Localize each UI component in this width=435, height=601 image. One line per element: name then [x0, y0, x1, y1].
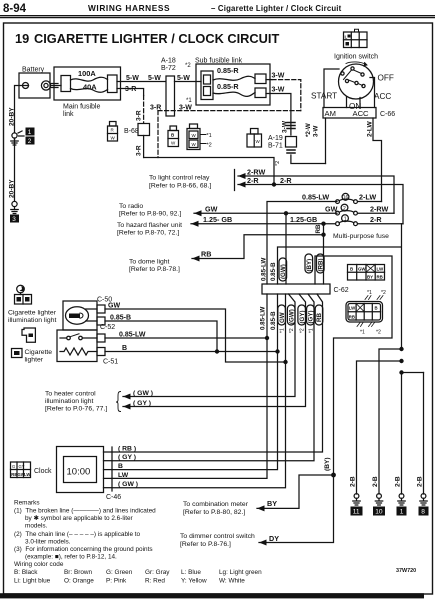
svg-text:0.85-LW: 0.85-LW	[261, 257, 268, 281]
svg-text:1: 1	[400, 509, 404, 516]
wire ON contact leads	[347, 97, 361, 108]
svg-text:C-66: C-66	[380, 111, 395, 118]
svg-text:illumination light: illumination light	[8, 317, 56, 324]
clock box	[57, 447, 104, 493]
node multi-purpose fuse	[321, 233, 325, 237]
wire GW illumination to GW net	[86, 309, 286, 362]
svg-text:RB: RB	[316, 313, 323, 322]
ground point 1/2	[11, 128, 35, 146]
svg-text:B: B	[118, 463, 123, 470]
svg-text:3-R: 3-R	[136, 145, 143, 156]
svg-text:1.25-GB: 1.25-GB	[290, 215, 317, 224]
svg-text:3.0-liter models.: 3.0-liter models.	[25, 539, 71, 546]
lighter terminals	[97, 334, 105, 342]
wire B-68 down to bus	[143, 136, 145, 158]
svg-text:RB: RB	[349, 314, 355, 319]
svg-text:B: B	[375, 306, 378, 311]
ground point 10	[373, 494, 385, 516]
wire 0.85-LW below C-62	[112, 294, 267, 478]
svg-text:(GY): (GY)	[299, 310, 306, 323]
svg-text:Br: Brown: Br: Brown	[64, 569, 93, 576]
svg-text:2-B: 2-B	[417, 476, 424, 487]
svg-text:DY: DY	[269, 534, 279, 543]
svg-text:2-RW: 2-RW	[370, 205, 388, 214]
wire 1.25-GB hazard row (fuse 1)	[191, 215, 336, 227]
wire (RB) below C-62 (to clock)	[112, 294, 323, 452]
wire 3-W lower output to A-19	[266, 94, 291, 136]
connector icon (2-cell, middle)	[168, 126, 179, 147]
wire DY to dimmer control switch	[259, 475, 334, 546]
svg-text:Lg: Light green: Lg: Light green	[219, 569, 262, 576]
svg-text:Multi-purpose fuse: Multi-purpose fuse	[333, 233, 389, 240]
bracket	[116, 392, 121, 412]
svg-text:(GW): (GW)	[280, 264, 287, 279]
svg-text:(1) The broken line (————) an: (1) The broken line (————) and lines ind…	[14, 508, 156, 515]
bottom black bar	[0, 593, 424, 598]
svg-text:*2: *2	[376, 330, 381, 336]
svg-text:16: 16	[343, 195, 349, 201]
cigarette lighter illumination light icon	[15, 285, 32, 304]
svg-text:37W720: 37W720	[396, 568, 416, 574]
junction 3-R riser / 2-R line	[272, 182, 276, 186]
svg-text:3: 3	[12, 216, 16, 223]
junction (BY)	[331, 473, 336, 478]
wire B clock row	[104, 469, 113, 471]
svg-text:2: 2	[28, 138, 32, 145]
svg-text:GW: GW	[108, 303, 120, 310]
svg-text:RB: RB	[11, 472, 17, 477]
chain-line marks on A-19 feed	[287, 123, 295, 129]
svg-text:C-52: C-52	[100, 324, 115, 331]
svg-text:L: Blue: L: Blue	[181, 569, 201, 576]
wire 2-R fuse 1 out	[358, 223, 403, 225]
cigarette lighter box	[57, 330, 97, 362]
svg-text:8: 8	[421, 509, 425, 516]
ground point 11	[351, 494, 363, 516]
wire RB tap down to multi-purpose fuse node	[323, 224, 325, 235]
svg-text:lighter: lighter	[25, 357, 44, 364]
ground point 8	[419, 494, 429, 516]
svg-text:START: START	[311, 92, 337, 101]
pin table upper	[348, 265, 385, 281]
fusible link 100A wavy element	[71, 77, 108, 81]
wire 3-R bus to fuse riser	[144, 158, 274, 185]
svg-text:illumination light: illumination light	[45, 398, 93, 405]
ground bus branch to trunk	[402, 372, 424, 374]
svg-text:To hazard flasher unit: To hazard flasher unit	[117, 222, 182, 229]
svg-text:To dome light: To dome light	[129, 259, 170, 266]
wire (GY) *2 below C-62 (to heater)	[123, 294, 306, 407]
wire 0.85-LW lighter feed	[105, 337, 267, 339]
pin table lower (connector face)	[346, 290, 386, 336]
svg-text:RB: RB	[377, 274, 383, 279]
svg-text:(BY): (BY)	[324, 457, 331, 471]
svg-text:0.85-LW: 0.85-LW	[119, 332, 146, 339]
svg-text:5-W: 5-W	[148, 75, 161, 82]
wire dashed branch down to 3-R bus	[157, 111, 159, 158]
label to hazard flasher unit	[117, 222, 182, 237]
wire (RB) clock row	[104, 451, 113, 453]
svg-text:LW: LW	[377, 267, 384, 272]
svg-text:3-R: 3-R	[136, 110, 143, 121]
svg-text:(BY): (BY)	[306, 259, 313, 272]
svg-text:10: 10	[375, 509, 383, 516]
svg-text:[Refer to P.8-78.]: [Refer to P.8-78.]	[129, 266, 180, 273]
svg-text:*2: *2	[275, 161, 281, 166]
svg-text:GY: GY	[19, 464, 25, 469]
svg-text:3-W: 3-W	[272, 73, 285, 80]
svg-text:1.25- GB: 1.25- GB	[203, 215, 232, 224]
svg-text:To radio: To radio	[119, 203, 143, 210]
wire to light control relay 2-RW (from fuse 2)	[238, 168, 394, 214]
svg-text:C-62: C-62	[334, 287, 349, 294]
clock connector icon	[11, 462, 31, 478]
svg-text:( GW ): ( GW )	[118, 481, 138, 488]
wire ground1 to ground3	[14, 138, 16, 201]
wire battery negative to ground	[15, 86, 23, 133]
wire to light control relay 2-R (from fuse 1 via 3-R riser)	[238, 176, 403, 224]
svg-text:link: link	[63, 111, 74, 118]
svg-text:3-W: 3-W	[313, 125, 320, 137]
PAGE HEADER	[3, 3, 342, 15]
svg-text:GW: GW	[205, 205, 218, 214]
svg-text:A-18: A-18	[161, 58, 176, 65]
svg-text:( GY ): ( GY )	[133, 400, 151, 407]
svg-text:*2: *2	[381, 290, 386, 296]
junction GW / C-62 branch	[284, 211, 288, 215]
svg-text:BY: BY	[367, 274, 373, 279]
wire (GW) to heater control illumination	[123, 390, 153, 400]
svg-text:Wiring color code: Wiring color code	[14, 561, 64, 568]
svg-text:O: Orange: O: Orange	[64, 578, 94, 585]
wire 5-W A-18 to sub fusible link	[175, 81, 202, 83]
svg-text:[Refer to P.8-70, 72.]: [Refer to P.8-70, 72.]	[117, 230, 179, 237]
wire 0.85-B ground feed from C-62 to right trunk	[278, 224, 402, 349]
svg-text:3-W: 3-W	[272, 87, 285, 94]
svg-text:P: Pink: P: Pink	[106, 578, 127, 585]
svg-text:– Cigarette Lighter / Clock Ci: – Cigarette Lighter / Clock Circuit	[211, 4, 342, 13]
wire RB to dome light	[192, 235, 324, 262]
svg-text:*2: *2	[300, 328, 306, 333]
ignition switch body	[339, 62, 374, 99]
svg-text:[Refer to P.8-66, 68.]: [Refer to P.8-66, 68.]	[149, 183, 211, 190]
svg-text:( GY ): ( GY )	[118, 454, 136, 461]
svg-text:11: 11	[353, 509, 360, 516]
label to light control relay	[149, 175, 211, 190]
label to dome light	[129, 259, 180, 274]
svg-text:WIRING HARNESS: WIRING HARNESS	[88, 3, 170, 13]
fusible link 40A wavy element	[71, 89, 108, 93]
svg-text:3-R: 3-R	[150, 104, 161, 111]
sub fusible element lower	[213, 92, 255, 96]
svg-text:Cigarette lighter: Cigarette lighter	[8, 310, 57, 317]
wire (GW) *2 below C-62 (to heater)	[123, 294, 295, 397]
wire battery positive to main fusible link	[51, 85, 61, 87]
wire GW radio row (fuse 2)	[194, 205, 338, 217]
label to heater control illumination light	[45, 391, 107, 413]
svg-text:*2: *2	[185, 63, 191, 69]
svg-text:Y: Yellow: Y: Yellow	[181, 578, 207, 585]
wire A-19 down and right to ignition AM / ground trunk	[291, 155, 326, 164]
junction lighter ground / 0.85-B	[275, 349, 279, 353]
svg-text:5-W: 5-W	[126, 75, 139, 82]
svg-text:LW: LW	[118, 472, 129, 479]
svg-text:(GY): (GY)	[308, 310, 315, 323]
wire 3-W upper output (dashed 2.6L path)	[266, 79, 272, 81]
wire 2-LW fuse 16 to ACC riser	[358, 201, 382, 203]
svg-text:*1: *1	[280, 328, 286, 333]
svg-text:A-19: A-19	[268, 135, 283, 142]
svg-text:*2-W: *2-W	[305, 123, 312, 137]
connector icon (2-cell, left)	[108, 122, 118, 142]
svg-text:Li: Light blue: Li: Light blue	[14, 578, 51, 585]
svg-text:2-LW: 2-LW	[367, 120, 374, 137]
svg-text:G: Green: G: Green	[106, 569, 133, 576]
bracket	[234, 170, 236, 191]
svg-text:B: B	[350, 267, 353, 272]
svg-text:Sub fusible link: Sub fusible link	[195, 58, 243, 65]
svg-text:LW: LW	[349, 306, 356, 311]
ground bus branch to ground 10	[379, 349, 402, 494]
wire LW clock row	[104, 477, 113, 479]
svg-text:8-94: 8-94	[3, 3, 27, 15]
svg-text:(3) For information concernin: (3) For information concerning the groun…	[14, 546, 153, 553]
connector icon (near A-19)	[247, 129, 262, 148]
wire (GY) clock row	[104, 460, 113, 462]
wire 0.85-B below C-62	[112, 294, 278, 470]
junction 1.25-GB / RB tap	[321, 222, 325, 226]
svg-text:L: L	[345, 35, 348, 40]
ground point 3	[10, 201, 19, 223]
svg-text:10:00: 10:00	[67, 467, 91, 478]
svg-text:GW: GW	[358, 267, 366, 272]
svg-text:LW: LW	[24, 472, 30, 477]
svg-text:2-R: 2-R	[247, 176, 259, 185]
svg-text:B-68: B-68	[124, 128, 139, 135]
header rule	[0, 15, 435, 17]
svg-text:( GW ): ( GW )	[133, 390, 153, 397]
svg-text:3-W: 3-W	[179, 104, 192, 111]
ground point 1	[397, 494, 407, 516]
svg-text:C-51: C-51	[103, 359, 118, 366]
svg-text:19: 19	[15, 31, 29, 46]
svg-text:0.85-B: 0.85-B	[270, 262, 277, 281]
svg-text:C-46: C-46	[106, 494, 121, 501]
wire B lighter ground	[105, 351, 278, 353]
svg-text:100A: 100A	[78, 69, 96, 78]
wire switch to ACC terminal	[370, 78, 375, 108]
svg-text:(GW): (GW)	[288, 309, 295, 324]
lighter heating element resistor	[60, 348, 97, 355]
fuse 1	[336, 215, 358, 226]
svg-text:ACC: ACC	[374, 92, 391, 101]
svg-text:Battery: Battery	[22, 67, 45, 74]
svg-text:R: Red: R: Red	[145, 578, 165, 585]
svg-text:0.85-R: 0.85-R	[217, 66, 239, 75]
svg-text:[Refer to P.0-76, 77.]: [Refer to P.0-76, 77.]	[45, 406, 107, 413]
svg-text:*1: *1	[186, 98, 192, 104]
wire GW branch to C-62	[285, 213, 287, 284]
wire 2-RW fuse 2 out	[358, 212, 394, 214]
svg-text:Clock: Clock	[34, 468, 52, 475]
wire GW *1 below C-62	[112, 294, 286, 488]
sub fusible element upper	[213, 76, 255, 80]
svg-text:0.85-LW: 0.85-LW	[302, 193, 329, 202]
diagram title	[15, 31, 279, 46]
wire 0.85-B trunk to ground 1	[401, 373, 403, 495]
svg-text:0.85-B: 0.85-B	[270, 311, 277, 330]
svg-text:Remarks: Remarks	[14, 500, 40, 507]
wire 0.85-B illumination ground	[86, 321, 217, 352]
label to combination meter	[183, 501, 249, 516]
svg-text:GW: GW	[279, 312, 286, 323]
svg-text:by ✱ symbol are applicable to: by ✱ symbol are applicable to 2.6-liter	[25, 515, 134, 522]
lighter switch contacts	[60, 334, 97, 340]
label to radio	[119, 203, 181, 218]
svg-text:AM: AM	[325, 109, 336, 118]
ignition terminal box AM/ACC	[323, 108, 376, 119]
svg-text:OFF: OFF	[378, 74, 394, 83]
svg-text:Ignition switch: Ignition switch	[334, 54, 378, 61]
svg-text:Cigarette: Cigarette	[25, 349, 53, 356]
battery B	[19, 67, 51, 99]
wire BY to combination meter	[257, 475, 334, 511]
svg-text:(RB): (RB)	[318, 258, 325, 271]
svg-text:2-R: 2-R	[280, 176, 292, 185]
connector icon (2-cell tall, starred)	[187, 124, 212, 150]
connector C-46 bracket	[111, 447, 113, 491]
svg-text:ACC: ACC	[353, 109, 370, 118]
svg-text:Main fusible: Main fusible	[63, 104, 100, 111]
svg-text:20-BY: 20-BY	[9, 179, 16, 198]
label to dimmer control switch	[180, 533, 255, 548]
svg-text:*2: *2	[207, 143, 212, 149]
svg-text:W: White: W: White	[219, 578, 245, 585]
svg-text:To combination meter: To combination meter	[183, 501, 249, 508]
cigarette lighter plug icon	[22, 328, 35, 342]
wire 3-R / 3-W dashed alternative through A-18	[158, 110, 301, 112]
wire ACC down to fuse row 1	[373, 118, 382, 202]
wire AM down to feed line	[325, 118, 327, 164]
svg-text:2-R: 2-R	[370, 215, 382, 224]
junction illumination GW / clock GW	[283, 360, 287, 364]
wire switch to AM terminal	[324, 69, 339, 108]
svg-text:2-B: 2-B	[372, 476, 379, 487]
svg-text:B: Black: B: Black	[14, 569, 38, 576]
wire RB node down to C-62	[323, 235, 325, 284]
wire 3-R dashed segment (2.6L)	[143, 96, 145, 124]
svg-text:B-72: B-72	[161, 65, 176, 72]
svg-text:*1: *1	[308, 328, 314, 333]
svg-text:To heater control: To heater control	[45, 391, 96, 398]
svg-text:[Refer to P.8-80, 82.]: [Refer to P.8-80, 82.]	[183, 509, 245, 516]
sub fusible link box	[195, 58, 270, 106]
svg-text:1: 1	[28, 129, 32, 136]
connector B-68	[138, 124, 150, 136]
svg-text:*1: *1	[207, 133, 212, 139]
wire (GY) to heater control illumination	[123, 400, 151, 410]
svg-text:To dimmer control switch: To dimmer control switch	[180, 533, 255, 540]
svg-text:2-B: 2-B	[395, 476, 402, 487]
wire (GY) *1 below C-62 (to clock)	[112, 294, 314, 461]
svg-text:20-BY: 20-BY	[9, 107, 16, 126]
svg-text:*2: *2	[289, 328, 295, 333]
svg-text:RB: RB	[315, 224, 322, 233]
svg-text:B-71: B-71	[268, 143, 283, 150]
svg-text:RB: RB	[201, 250, 211, 259]
wire ground trunk (ignition)	[423, 373, 425, 495]
svg-text:(2) The chain line (– – – – –: (2) The chain line (– – – – –) is applic…	[14, 531, 141, 538]
wire 0.85-LW fuse feed (fuse 16)	[267, 202, 337, 285]
svg-text:G: G	[12, 464, 15, 469]
svg-text:2-B: 2-B	[350, 476, 357, 487]
junction illumination ground / B	[215, 349, 219, 353]
svg-text:*1: *1	[367, 290, 372, 296]
svg-text:( RB ): ( RB )	[118, 446, 136, 453]
svg-text:0.85-R: 0.85-R	[217, 82, 239, 91]
ground bus branch to ground 11	[357, 361, 402, 494]
svg-text:To light control relay: To light control relay	[149, 175, 210, 182]
svg-text:[Refer to P.8-76.]: [Refer to P.8-76.]	[180, 541, 231, 548]
connector A-19/B-71	[286, 137, 297, 148]
svg-text:*1: *1	[360, 330, 365, 336]
svg-text:(example: ■), refer to P.8-12,: (example: ■), refer to P.8-12, 14.	[25, 554, 117, 561]
ignition switch connector icon	[344, 29, 368, 47]
svg-text:3-R: 3-R	[125, 86, 136, 93]
svg-text:BY: BY	[267, 499, 277, 508]
chain-line marks below A-19	[287, 150, 295, 153]
connector A-18/B-72	[161, 58, 176, 117]
svg-text:2-LW: 2-LW	[359, 193, 376, 202]
wire 5-W main link to A-18	[117, 81, 166, 83]
svg-text:[Refer to P.8-90, 92.]: [Refer to P.8-90, 92.]	[119, 211, 181, 218]
illumination light box	[63, 301, 97, 330]
junction lighter feed / 0.85-LW	[265, 336, 269, 340]
main fusible link box	[54, 67, 121, 100]
lamp terminals	[97, 305, 105, 313]
svg-text:5-W: 5-W	[177, 75, 190, 82]
wire 3-R main link, corner down to B-68	[117, 89, 144, 96]
cigarette lighter label icon	[12, 349, 23, 358]
fuse 2	[336, 204, 358, 215]
wire (GW) clock row	[104, 487, 113, 489]
fuse 16	[336, 193, 358, 203]
svg-text:B: B	[122, 345, 127, 352]
svg-text:0.85-LW: 0.85-LW	[260, 306, 267, 330]
svg-text:Gr: Gray: Gr: Gray	[145, 569, 170, 576]
connector C-62	[262, 284, 330, 294]
svg-text:CIGARETTE LIGHTER / CLOCK CIRC: CIGARETTE LIGHTER / CLOCK CIRCUIT	[34, 31, 279, 46]
svg-text:40A: 40A	[83, 83, 97, 92]
wire (BY) from C-62 up over to right side	[315, 256, 392, 475]
svg-text:0.85-B: 0.85-B	[110, 315, 131, 322]
svg-text:models.: models.	[25, 523, 48, 530]
